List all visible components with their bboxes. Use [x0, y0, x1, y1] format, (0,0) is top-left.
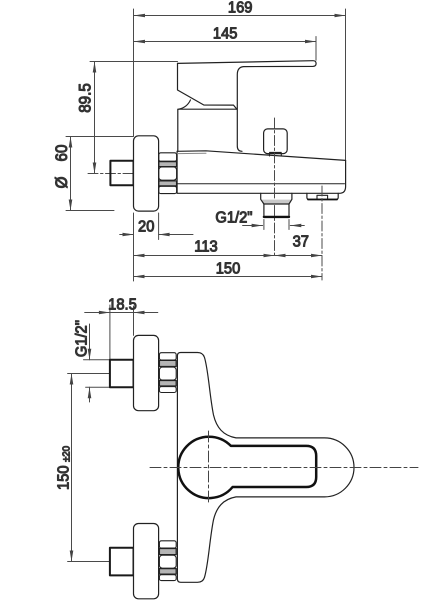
- escutcheon 2 (front view): [134, 524, 159, 599]
- svg-text:89.5: 89.5: [77, 83, 95, 113]
- wire: extension line wall plane x=133.5: [133, 9, 135, 136]
- dim O60 line: [70, 137, 72, 211]
- wire: axis1 extension y=373.5: [68, 373, 110, 375]
- node: fitting centerline x=322: [321, 186, 323, 280]
- dim O60 extension bottom: [66, 210, 114, 212]
- dim 18.5: [85, 312, 158, 314]
- wire: extension x=158.6 for dim 20: [158, 213, 160, 240]
- hex nut (side view): [159, 153, 177, 194]
- svg-text:G1/2": G1/2": [73, 320, 91, 357]
- dim 20: [120, 234, 193, 236]
- handle (front view, keyhole): [178, 437, 316, 498]
- mixer body (side view): [177, 151, 346, 193]
- dim 145 line: [134, 41, 317, 43]
- hex nut 2 (front view): [159, 541, 176, 581]
- wire: G1/2 extension ticks: [264, 220, 289, 230]
- mixer body (front view): [177, 353, 354, 583]
- svg-text:37: 37: [293, 233, 309, 251]
- svg-text:145: 145: [213, 25, 238, 43]
- pipe stub (wall connection): [110, 161, 133, 185]
- node: spout/knob centerline x=274.5: [274, 118, 276, 258]
- body seam line top: [177, 152, 206, 154]
- dim 169 line: [134, 15, 346, 17]
- wire: extension x=133.5 for dim 18.5: [133, 306, 135, 335]
- diverter knob base: [270, 152, 282, 156]
- handle left edge and neck: [178, 63, 237, 109]
- spout thread end: [264, 216, 289, 218]
- svg-text:20: 20: [138, 218, 154, 236]
- wire: stub top extension: [84, 359, 111, 361]
- wire: extension line lever top y=61.5: [90, 61, 178, 63]
- svg-text:±20: ±20: [61, 446, 72, 462]
- escutcheon 1 (front view): [134, 335, 159, 410]
- wire: extension wall plane lower x=133.5: [133, 213, 135, 281]
- dim 89.5 line: [94, 62, 96, 174]
- svg-text:Ø 60: Ø 60: [53, 144, 71, 188]
- spout outlet collar: [261, 193, 292, 204]
- pipe stub 2 (front view): [110, 548, 134, 576]
- pipe stub 1 (front view): [110, 360, 134, 388]
- node: circle vertical centerline: [208, 431, 210, 503]
- svg-text:169: 169: [228, 0, 253, 17]
- node: main centerline y=467.5: [150, 467, 418, 469]
- body top taper: [177, 151, 346, 161]
- escutcheon (side view): [134, 136, 159, 211]
- cartridge housing: [178, 109, 237, 151]
- dim O60 extension top: [66, 136, 134, 138]
- dim G1/2 lines: [243, 225, 305, 227]
- wire: extension line body front x=345.5: [345, 9, 347, 160]
- diverter knob: [264, 129, 288, 154]
- svg-text:18.5: 18.5: [108, 296, 137, 314]
- svg-text:150: 150: [55, 465, 73, 490]
- dim 150+-20: [71, 374, 73, 562]
- dome arc: [179, 100, 191, 109]
- wire: extension x=109.9 for dim 18.5: [109, 305, 111, 360]
- wire: stub bottom extension: [86, 386, 111, 388]
- dim 113: [134, 255, 275, 257]
- shower outlet fitting (bottom right): [307, 193, 338, 199]
- svg-text:G1/2": G1/2": [215, 209, 252, 227]
- dim 37: [275, 255, 323, 257]
- svg-text:113: 113: [194, 238, 217, 256]
- spout collar shading: [261, 200, 292, 204]
- body seam line bottom: [177, 183, 344, 185]
- dim G1/2 front view arrows: [89, 324, 91, 402]
- node: connection axis line y=173.5: [88, 173, 141, 175]
- spout thread G1/2: [264, 204, 289, 217]
- svg-text:150: 150: [216, 260, 241, 278]
- dim 150: [134, 276, 323, 278]
- wire: axis2 extension y=561.5: [68, 561, 110, 563]
- wire: extension line lever tip x=316: [315, 37, 317, 61]
- hex nut 1 (front view): [159, 353, 176, 393]
- handle lever: [178, 61, 317, 152]
